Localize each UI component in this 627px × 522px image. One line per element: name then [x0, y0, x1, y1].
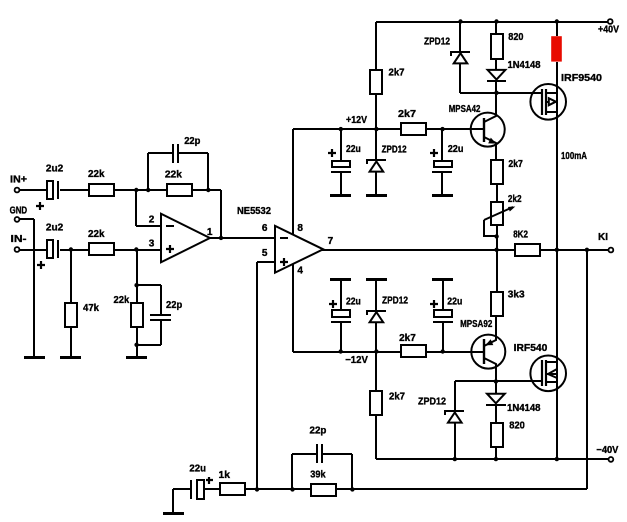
wire +40V rail to D2 zener [459, 22, 461, 52]
wire +40V rail to R6 2k7 [375, 22, 377, 70]
wire -40V bottom rail [376, 458, 608, 460]
svg-text:IN+: IN+ [10, 174, 27, 185]
wire Q3 source/drain column [556, 62, 558, 459]
wire R2 to op-amp pin3 [113, 249, 162, 251]
zener D4 ZPD12 (lower) cathode bar [445, 411, 464, 415]
junction output/feedback [585, 248, 589, 252]
svg-text:+12V: +12V [346, 115, 367, 126]
transistor Q2 base bar [483, 339, 485, 364]
wire -12V node down to R13 2k7 [375, 352, 377, 391]
capacitor C1 2u2 plus plate [47, 181, 53, 199]
wire pin3 node down to R5 [136, 250, 138, 303]
terminal KI output [609, 248, 614, 253]
svg-text:2k7: 2k7 [399, 333, 416, 344]
resistor 2k7 -12V box [401, 345, 426, 357]
svg-text:22u: 22u [346, 297, 361, 308]
wire lower gate node to D5 diode [495, 381, 497, 394]
junction upper gate node [494, 91, 498, 95]
transistor Q2 MPSA92 body [471, 335, 505, 369]
svg-text:7: 7 [328, 236, 334, 247]
diode D3 1N4148 triangle [488, 70, 506, 80]
wire node E up to C10 [291, 454, 293, 489]
zener D4 ZPD12 (lower) triangle [448, 412, 462, 422]
wire IN- terminal to C2 [19, 249, 48, 251]
svg-text:1N4148: 1N4148 [507, 403, 541, 414]
svg-text:8: 8 [297, 223, 303, 234]
wire ground to C8 [442, 281, 444, 310]
svg-text:22k: 22k [114, 295, 130, 306]
svg-text:ZPD12: ZPD12 [382, 145, 407, 156]
junction +40V/zener D2 [458, 19, 462, 23]
capacitor C5 22u plus plate [332, 161, 350, 167]
svg-text:ZPD12: ZPD12 [418, 397, 446, 408]
svg-text:2k7: 2k7 [389, 68, 405, 79]
ground (R4 47k) [60, 356, 81, 359]
wire C6 to ground [441, 173, 443, 194]
wire +40V rail to R7 820 [495, 22, 497, 34]
diode D3 1N4148 cathode bar [487, 80, 506, 82]
trimmer R10 wiper wire [484, 220, 497, 236]
svg-text:39k: 39k [310, 470, 326, 481]
wire C10 right plate out [323, 453, 352, 455]
junction node E [290, 487, 294, 491]
wire C1 to R1 [60, 189, 89, 191]
capacitor C8 plus sign [430, 300, 438, 308]
junction -40V/Q4 [555, 457, 559, 461]
capacitor C2 2u2 plus plate [47, 240, 53, 258]
resistor R5 22k box [131, 303, 143, 327]
svg-text:IN-: IN- [11, 234, 27, 245]
diode D5 1N4148 cathode bar [486, 404, 506, 406]
node C junction [134, 283, 138, 287]
transistor Q1 emitter arrow [488, 138, 496, 144]
resistor R15 39k box [311, 484, 336, 496]
wire to C3 left plate [148, 152, 172, 154]
wire C3 down to feedback node [207, 153, 209, 190]
svg-text:8K2: 8K2 [513, 229, 528, 240]
svg-text:ZPD12: ZPD12 [382, 296, 408, 307]
capacitor C9 22u plus plate [197, 480, 204, 499]
op-amp U1A plus sign [166, 245, 174, 253]
svg-text:22u: 22u [189, 464, 206, 475]
zener D1 ZPD12 (+12V) cathode bar [367, 160, 386, 164]
svg-text:2u2: 2u2 [46, 222, 64, 233]
resistor R11 820 box [491, 423, 503, 447]
svg-text:1: 1 [207, 227, 213, 238]
resistor R10 2k2 trimmer box [491, 202, 503, 225]
svg-text:+40V: +40V [598, 25, 619, 36]
wire R10 to output node [496, 225, 498, 250]
svg-text:KI: KI [598, 232, 608, 243]
svg-text:22u: 22u [448, 144, 464, 155]
wire ground to C7 [340, 281, 342, 310]
resistor R1 22k box [89, 184, 114, 196]
svg-text:22k: 22k [165, 169, 182, 180]
wire D3 to gate node [495, 81, 497, 93]
svg-text:47k: 47k [83, 303, 99, 314]
wire -12V rail to Q2 base [426, 351, 484, 353]
capacitor C10 22p left plate [316, 444, 318, 463]
wire output line left part [322, 249, 515, 251]
svg-text:MPSA42: MPSA42 [449, 104, 481, 115]
capacitor C6 plus sign [430, 149, 438, 157]
capacitor C3 22p left plate [172, 144, 174, 163]
op-amp U1B plus sign [280, 258, 288, 266]
svg-text:22p: 22p [184, 136, 200, 147]
capacitor C4 22p top plate [150, 314, 171, 316]
wire node C to C4 top [137, 284, 161, 286]
junction pin1 output [219, 236, 223, 240]
capacitor C5 plus sign [328, 149, 336, 157]
wire C5 to ground [340, 173, 342, 194]
capacitor C7 22u plus plate [332, 310, 350, 317]
wire node A down to pin2 [135, 190, 137, 226]
capacitor C9 plus sign [206, 477, 213, 484]
op-amp U1A minus sign [166, 225, 174, 227]
capacitor C5 22u minus plate [331, 171, 351, 173]
wire R4 to ground [70, 328, 72, 356]
node B junction (47k) [69, 247, 73, 251]
wire GND down to ground [33, 219, 35, 356]
wire output node down to R12 3k3 [496, 250, 498, 292]
terminal GND [15, 217, 20, 222]
node A junction (C3 cap) [146, 188, 150, 192]
wire C9 to R14 1k [204, 488, 220, 490]
wire R13 to -40V rail [375, 415, 377, 459]
wire R11 to -40V rail [495, 447, 497, 459]
svg-text:1k: 1k [219, 470, 231, 481]
wire to C10 left plate [292, 453, 316, 455]
resistor R12 3k3 box [491, 292, 503, 316]
junction pin3 node [134, 247, 138, 251]
junction +12V/C5 [339, 127, 343, 131]
transistor Q1 MPSA42 body [471, 113, 505, 147]
wire C3 right plate out [179, 152, 208, 154]
junction -12V/D6 [374, 349, 378, 353]
wire feedback corner down to pin1 node [220, 190, 222, 238]
wire C4 bottom plate [160, 321, 162, 345]
svg-text:2: 2 [149, 214, 155, 225]
svg-text:MPSA92: MPSA92 [460, 319, 493, 330]
transistor Q3 drain stub [546, 92, 557, 94]
wire op1 output pin1 to op2 pin6 [210, 237, 276, 239]
svg-text:NE5532: NE5532 [237, 206, 271, 217]
svg-text:820: 820 [509, 421, 525, 432]
transistor Q4 drain stub [546, 361, 557, 363]
transistor Q1 base bar [483, 118, 485, 142]
resistor R16 8K2 box [515, 244, 540, 256]
svg-text:IRF9540: IRF9540 [561, 73, 602, 84]
junction -12V/C7 [339, 349, 343, 353]
capacitor C10 22p right plate [321, 444, 323, 463]
transistor Q4 gate bar [541, 360, 543, 386]
wire +12V node to D1 zener [375, 129, 377, 160]
capacitor C3 22p right plate [177, 144, 179, 163]
resistor R7 820 box [491, 34, 503, 59]
wire op2 pin4 down to -12V rail [292, 262, 294, 352]
node A junction (R1/pin2) [134, 188, 138, 192]
transistor Q2 collector lead [484, 358, 496, 381]
ground (D6 zener) [366, 278, 387, 281]
junction Q1 base/C6 [440, 127, 444, 131]
resistor R14 1k box [220, 483, 245, 495]
wire C4 bottom to node D [137, 344, 161, 346]
junction output/Q3-Q4 [555, 248, 559, 252]
wire R1 to node A [113, 189, 167, 191]
wire +40V top rail [376, 21, 608, 23]
capacitor C1 plus sign [36, 202, 44, 210]
svg-text:−12V: −12V [345, 355, 368, 366]
capacitor C9 22u minus plate [190, 480, 192, 499]
ground (C6) [432, 194, 453, 197]
wire lower gate net [455, 380, 542, 382]
diode D5 1N4148 triangle [487, 394, 505, 404]
transistor Q3 middle stub [546, 101, 557, 103]
wire pin5 down to feedback net [256, 262, 258, 489]
wire GND terminal right [19, 218, 34, 220]
wire ground branch to C9 [173, 488, 190, 490]
wire into op-amp pin2 [136, 225, 162, 227]
wire feedback net vertical [586, 250, 588, 489]
transistor Q3 arrow [549, 98, 556, 105]
resistor R9 2k7 emitter box [491, 160, 503, 184]
wire C2 to R2 [60, 249, 89, 251]
capacitor C7 plus sign [329, 300, 337, 308]
svg-text:2k7: 2k7 [398, 109, 416, 120]
svg-text:22p: 22p [310, 426, 327, 437]
capacitor C2 plus sign [37, 261, 45, 269]
transistor Q4 middle stub [546, 373, 557, 375]
svg-text:2u2: 2u2 [46, 163, 64, 174]
trimmer R10 arrow line [484, 207, 513, 220]
wire gate corner to D4 zener [454, 381, 456, 411]
svg-text:820: 820 [508, 32, 524, 43]
resistor R4 47k box [65, 303, 77, 327]
svg-text:3: 3 [149, 239, 155, 250]
svg-text:2k2: 2k2 [508, 194, 522, 205]
ground (C5) [330, 194, 351, 197]
ground (D1 zener) [366, 194, 387, 197]
svg-text:100mA: 100mA [561, 151, 587, 162]
wire +12V rail to Q1 base [426, 128, 484, 130]
capacitor C6 22u minus plate [432, 171, 452, 173]
wire op2 pin5 stub [257, 261, 276, 263]
transistor Q1 emitter lead [484, 137, 496, 160]
terminal IN- [15, 247, 20, 252]
junction Q2 base/C8 [441, 349, 445, 353]
wire R6 to +12V node [375, 94, 377, 129]
wire C10 down to node F [351, 454, 353, 489]
node D junction [134, 343, 138, 347]
junction trimmer wiper [494, 234, 498, 238]
wire +12V node to C5 [340, 129, 342, 161]
capacitor C1 2u2 minus plate [57, 181, 59, 199]
transistor Q4 channel bar [545, 360, 547, 386]
junction +40V/R8 [555, 19, 559, 23]
wire output line to KI terminal [540, 249, 608, 251]
capacitor C8 22u minus plate [433, 321, 453, 323]
junction node F [350, 487, 354, 491]
svg-text:−40V: −40V [596, 445, 618, 456]
svg-text:1N4148: 1N4148 [508, 60, 541, 71]
junction +12V/D1 [374, 127, 378, 131]
capacitor C6 22u plus plate [434, 161, 452, 167]
svg-text:22u: 22u [346, 144, 361, 155]
wire ground to D6 zener [375, 281, 377, 311]
wire IN+ terminal to C1 [19, 189, 48, 191]
svg-text:22k: 22k [88, 169, 105, 180]
junction feedback right [206, 188, 210, 192]
trimmer R10 arrow head [508, 207, 515, 212]
wire +12V rail left part [293, 128, 401, 130]
svg-text:2k7: 2k7 [508, 159, 523, 170]
svg-text:3k3: 3k3 [508, 290, 525, 301]
op-amp U1B triangle [275, 226, 323, 273]
svg-text:5: 5 [262, 248, 268, 259]
transistor Q4 arrow [548, 369, 557, 378]
svg-text:22u: 22u [447, 297, 462, 308]
capacitor C7 22u minus plate [331, 321, 351, 323]
wire D2 zener to gate node [459, 63, 461, 93]
wire R3 to corner above pin1 [191, 189, 221, 191]
terminal IN+ [15, 188, 20, 193]
transistor Q2 emitter arrow [485, 339, 493, 345]
capacitor C4 22p bottom plate [150, 319, 171, 321]
op-amp U1B minus sign [280, 237, 288, 239]
wire D1 zener to ground [375, 172, 377, 194]
svg-text:IRF540: IRF540 [514, 343, 548, 354]
wire D4 zener to -40V rail [454, 422, 456, 459]
svg-text:6: 6 [262, 223, 268, 234]
zener D6 ZPD12 (-12V) cathode bar [367, 311, 386, 315]
junction -40V/D4 [453, 457, 457, 461]
wire down to bottom-left ground [172, 489, 174, 512]
zener D1 ZPD12 (+12V) triangle [370, 161, 384, 171]
ground (C8) [432, 278, 453, 281]
ground (C9 22u) [163, 512, 184, 515]
wire C7 to -12V node [340, 323, 342, 352]
transistor Q3 gate bar [541, 89, 543, 115]
wire node B down to R4 47k [70, 250, 72, 303]
junction -40V/R11 [494, 457, 498, 461]
svg-text:4: 4 [297, 266, 303, 277]
transistor Q4 source stub [546, 381, 557, 383]
resistor R13 2k7 box [370, 391, 382, 415]
ground (R5 22k) [126, 356, 147, 359]
wire D6 zener to -12V node [375, 322, 377, 352]
junction output/bias chain [494, 248, 498, 252]
wire R15 to feedback vertical [336, 488, 587, 490]
terminal +40V [608, 19, 613, 24]
wire C8 to -12V node [442, 323, 444, 352]
wire D5 to R11 820 [495, 405, 497, 423]
terminal -40V [609, 457, 614, 462]
wire upper gate net [460, 92, 542, 94]
transistor Q3 IRF9540 body [530, 84, 566, 120]
wire C4 top plate [160, 285, 162, 315]
zener D2 ZPD12 (upper) cathode bar [451, 52, 470, 56]
wire R5 to ground [136, 328, 138, 356]
wire -12V rail left part [293, 351, 401, 353]
wire base node to C6 [441, 129, 443, 161]
wire R14 to R15 39k [245, 488, 311, 490]
svg-text:GND: GND [10, 206, 28, 217]
svg-text:22k: 22k [88, 229, 105, 240]
op-amp U1A triangle [161, 214, 210, 263]
zener D6 ZPD12 (-12V) triangle [370, 312, 384, 322]
resistor R3 22k feedback box [167, 184, 192, 196]
wire +40V rail to R8 red [556, 22, 558, 36]
zener D2 ZPD12 (upper) triangle [454, 53, 468, 63]
resistor R8 red source resistor [551, 36, 562, 61]
resistor R2 22k box [89, 243, 114, 255]
svg-text:2k7: 2k7 [389, 392, 405, 403]
wire R9 2k7 to R10 trimmer [496, 184, 498, 202]
transistor Q2 emitter lead [484, 316, 496, 346]
junction +40V/R7 [494, 19, 498, 23]
wire R7 to D3 diode [495, 59, 497, 70]
wire op2 pin8 up to +12V rail [292, 129, 294, 236]
transistor Q3 source stub [546, 111, 557, 113]
svg-text:22p: 22p [166, 300, 182, 311]
capacitor C8 22u plus plate [434, 310, 452, 317]
junction feedback/pin5 [255, 487, 259, 491]
capacitor C2 2u2 minus plate [57, 240, 59, 258]
transistor Q3 channel bar [545, 89, 547, 115]
junction lower gate node [494, 379, 498, 383]
transistor Q1 collector lead [484, 93, 496, 122]
svg-text:ZPD12: ZPD12 [424, 37, 450, 48]
resistor R6 2k7 box [370, 70, 382, 94]
transistor Q4 IRF540 body [530, 356, 566, 392]
ground (C7) [330, 278, 351, 281]
ground (GND input) [24, 356, 45, 359]
wire node A up to C3 cap [147, 153, 149, 190]
resistor 2k7 +12V box [401, 123, 426, 135]
